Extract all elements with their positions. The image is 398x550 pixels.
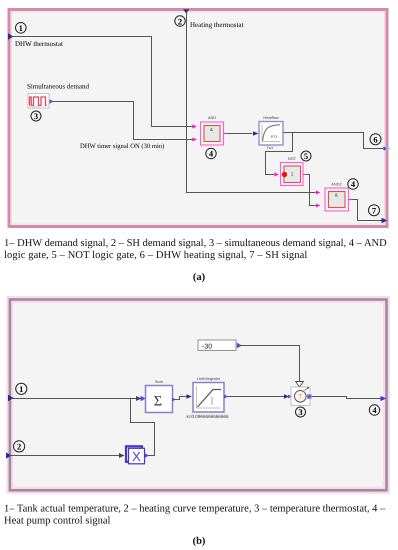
svg-text:AND2: AND2 bbox=[331, 182, 341, 187]
output port 7 bbox=[382, 218, 388, 223]
svg-text:2: 2 bbox=[178, 16, 182, 26]
svg-text:3: 3 bbox=[34, 111, 38, 121]
wire Sum to integrator bbox=[173, 397, 187, 400]
output port 6 bbox=[383, 146, 390, 151]
wire AND output to PT1 block bbox=[224, 131, 259, 135]
NOT gate U2 bbox=[281, 156, 304, 186]
arrow into product input bbox=[119, 453, 125, 458]
node 2 circled label (b) bbox=[14, 441, 25, 452]
input port 1 DHW thermostat bbox=[8, 33, 14, 39]
wire input 1 to Sum bbox=[11, 398, 137, 400]
wire input 2 to product block bbox=[10, 455, 120, 457]
panel (a) frame bbox=[9, 10, 387, 227]
svg-text:T: T bbox=[298, 394, 302, 401]
open triangle arrow into switch top bbox=[296, 382, 304, 388]
node 5 circled label (NOT gate) bbox=[301, 151, 311, 161]
integrator output port bbox=[224, 394, 228, 398]
input port 1 tank temperature bbox=[8, 395, 14, 401]
svg-text:Heat pump control signal: Heat pump control signal bbox=[4, 516, 111, 527]
svg-text:Tw1: Tw1 bbox=[267, 146, 274, 150]
arrow into AND input 2 bbox=[192, 138, 197, 142]
pulse source block bbox=[28, 94, 49, 109]
svg-text:k=0.0966666666666: k=0.0966666666666 bbox=[187, 414, 229, 419]
wire AND2 output to outport 7 bbox=[349, 200, 384, 221]
svg-text:DHW thermostat: DHW thermostat bbox=[15, 40, 63, 48]
pulse source output port bbox=[50, 99, 54, 103]
AND gate U3 bbox=[325, 182, 349, 212]
svg-text:&: & bbox=[335, 192, 338, 197]
product block X bbox=[126, 446, 145, 464]
thermostat switch port arrow bbox=[288, 395, 292, 399]
wire PT1 output to outport 6 bbox=[283, 133, 383, 149]
node 7 circled label bbox=[369, 205, 380, 216]
wire integrator to thermostat switch bbox=[227, 396, 284, 398]
svg-text:(b): (b) bbox=[193, 536, 206, 547]
svg-text:-30: -30 bbox=[202, 343, 212, 350]
product output port bbox=[145, 453, 149, 457]
input port 2 heating curve temperature bbox=[6, 453, 12, 459]
constant block -30 bbox=[198, 340, 236, 351]
svg-text:Heatflow: Heatflow bbox=[263, 115, 278, 120]
arrow into integrator bbox=[187, 394, 192, 398]
wire constant to thermostat switch top input bbox=[240, 346, 300, 382]
output port 4 bbox=[381, 396, 387, 401]
wire thermostat to outport 4 bbox=[312, 397, 381, 399]
node 4 circled label (AND2 gate) bbox=[348, 179, 358, 189]
svg-text:DHW timer signal ON (30 min): DHW timer signal ON (30 min) bbox=[80, 143, 164, 150]
svg-text:X: X bbox=[132, 449, 141, 464]
panel (b) frame bbox=[10, 300, 387, 491]
svg-text:LimIntegrator: LimIntegrator bbox=[197, 376, 221, 381]
svg-text:PT1: PT1 bbox=[271, 135, 278, 139]
node 1 circled label (a) bbox=[15, 23, 26, 34]
AND gate U1 bbox=[201, 115, 224, 145]
svg-text:Heating thermostat: Heating thermostat bbox=[190, 21, 244, 29]
arrow into thermostat switch bbox=[284, 394, 289, 398]
svg-text:AND: AND bbox=[208, 115, 216, 120]
wire NOT output to AND2 input 2 bbox=[303, 175, 321, 208]
PT1 heat flow block bbox=[259, 115, 283, 150]
wire Heating thermostat to AND2 input 1 bbox=[187, 12, 316, 193]
node 3 circled label (a) bbox=[31, 111, 41, 121]
svg-text:1: 1 bbox=[19, 23, 23, 33]
constant output port bbox=[237, 343, 242, 349]
node 1 circled label (b) bbox=[16, 383, 27, 394]
junction arrow into AND input 1 bbox=[192, 125, 197, 129]
svg-text:&: & bbox=[210, 127, 213, 132]
svg-text:3: 3 bbox=[298, 407, 302, 417]
Sum output port bbox=[172, 398, 176, 402]
wire DHW thermostat to AND gate input 1 bbox=[11, 37, 193, 127]
svg-text:logic gate, 5 – NOT logic gate: logic gate, 5 – NOT logic gate, 6 – DHW … bbox=[4, 250, 307, 261]
arrow into NOT input bbox=[274, 173, 279, 177]
svg-text:6: 6 bbox=[373, 135, 377, 145]
svg-text:Sum: Sum bbox=[155, 379, 164, 384]
wire branch PT1 output to NOT gate bbox=[266, 133, 293, 175]
node 4 circled label (AND gate) bbox=[206, 148, 216, 158]
svg-text:1: 1 bbox=[19, 384, 23, 394]
svg-text:1: 1 bbox=[291, 172, 294, 177]
node 4 circled label (b) bbox=[369, 405, 379, 415]
svg-text:Σ: Σ bbox=[154, 394, 162, 410]
arrow into AND2 input 1 bbox=[316, 191, 321, 195]
svg-text:(a): (a) bbox=[193, 272, 206, 283]
svg-text:1– DHW demand signal, 2 – SH d: 1– DHW demand signal, 2 – SH demand sign… bbox=[4, 238, 387, 249]
Sum input port arrow bbox=[141, 396, 146, 401]
svg-text:Simultaneous demand: Simultaneous demand bbox=[27, 83, 90, 91]
svg-text:1– Tank actual temperature, 2: 1– Tank actual temperature, 2 – heating … bbox=[4, 504, 386, 515]
limited integrator block bbox=[187, 376, 229, 419]
svg-text:5: 5 bbox=[304, 151, 308, 161]
thermostat output port bbox=[308, 395, 312, 398]
arrow into Sum input bbox=[136, 396, 142, 401]
wire simultaneous demand to AND gate input 2 bbox=[53, 102, 193, 140]
input port 2 Heating thermostat bbox=[183, 9, 189, 13]
node 3 circled label (b) bbox=[296, 407, 306, 417]
svg-text:0 2 4 6 8: 0 2 4 6 8 bbox=[30, 106, 40, 109]
Sum block bbox=[146, 379, 173, 413]
node 6 circled label bbox=[370, 134, 381, 145]
thermostat switch block bbox=[291, 387, 310, 406]
wire product output back to Sum input bbox=[131, 399, 155, 456]
svg-text:NOT: NOT bbox=[288, 156, 297, 161]
svg-text:2: 2 bbox=[17, 442, 21, 452]
node 2 circled label (a) bbox=[175, 16, 185, 26]
